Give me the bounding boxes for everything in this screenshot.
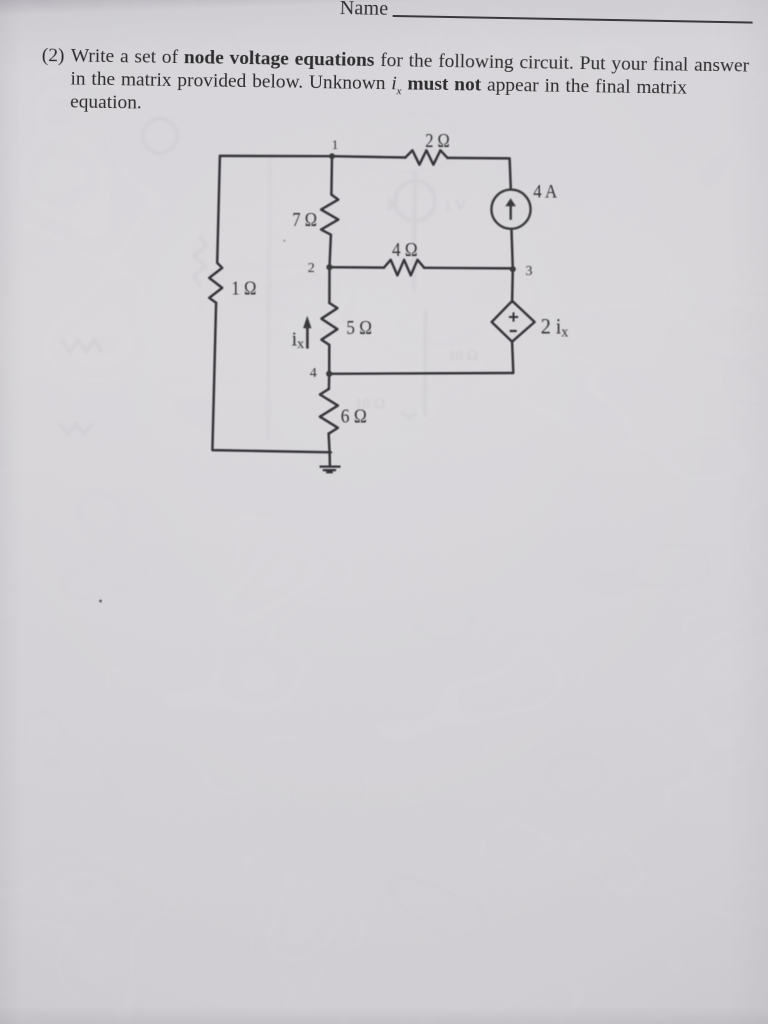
svg-text:6 Ω: 6 Ω	[341, 406, 367, 428]
svg-text:3: 3	[526, 264, 533, 279]
svg-text:10 Ω: 10 Ω	[448, 348, 478, 364]
svg-text:ix: ix	[292, 328, 305, 352]
svg-text:2: 2	[308, 261, 315, 276]
svg-text:4 A: 4 A	[533, 182, 557, 203]
svg-text:1 Ω: 1 Ω	[231, 278, 256, 300]
svg-text:7 Ω: 7 Ω	[292, 209, 317, 231]
svg-text:1: 1	[332, 137, 339, 152]
svg-text:1 V: 1 V	[444, 198, 466, 214]
svg-text:4 Ω: 4 Ω	[392, 239, 418, 261]
svg-text:5 Ω: 5 Ω	[346, 317, 372, 339]
svg-text:4: 4	[310, 366, 317, 381]
svg-text:2 Ω: 2 Ω	[425, 130, 450, 152]
svg-text:2 ix: 2 ix	[541, 314, 569, 341]
